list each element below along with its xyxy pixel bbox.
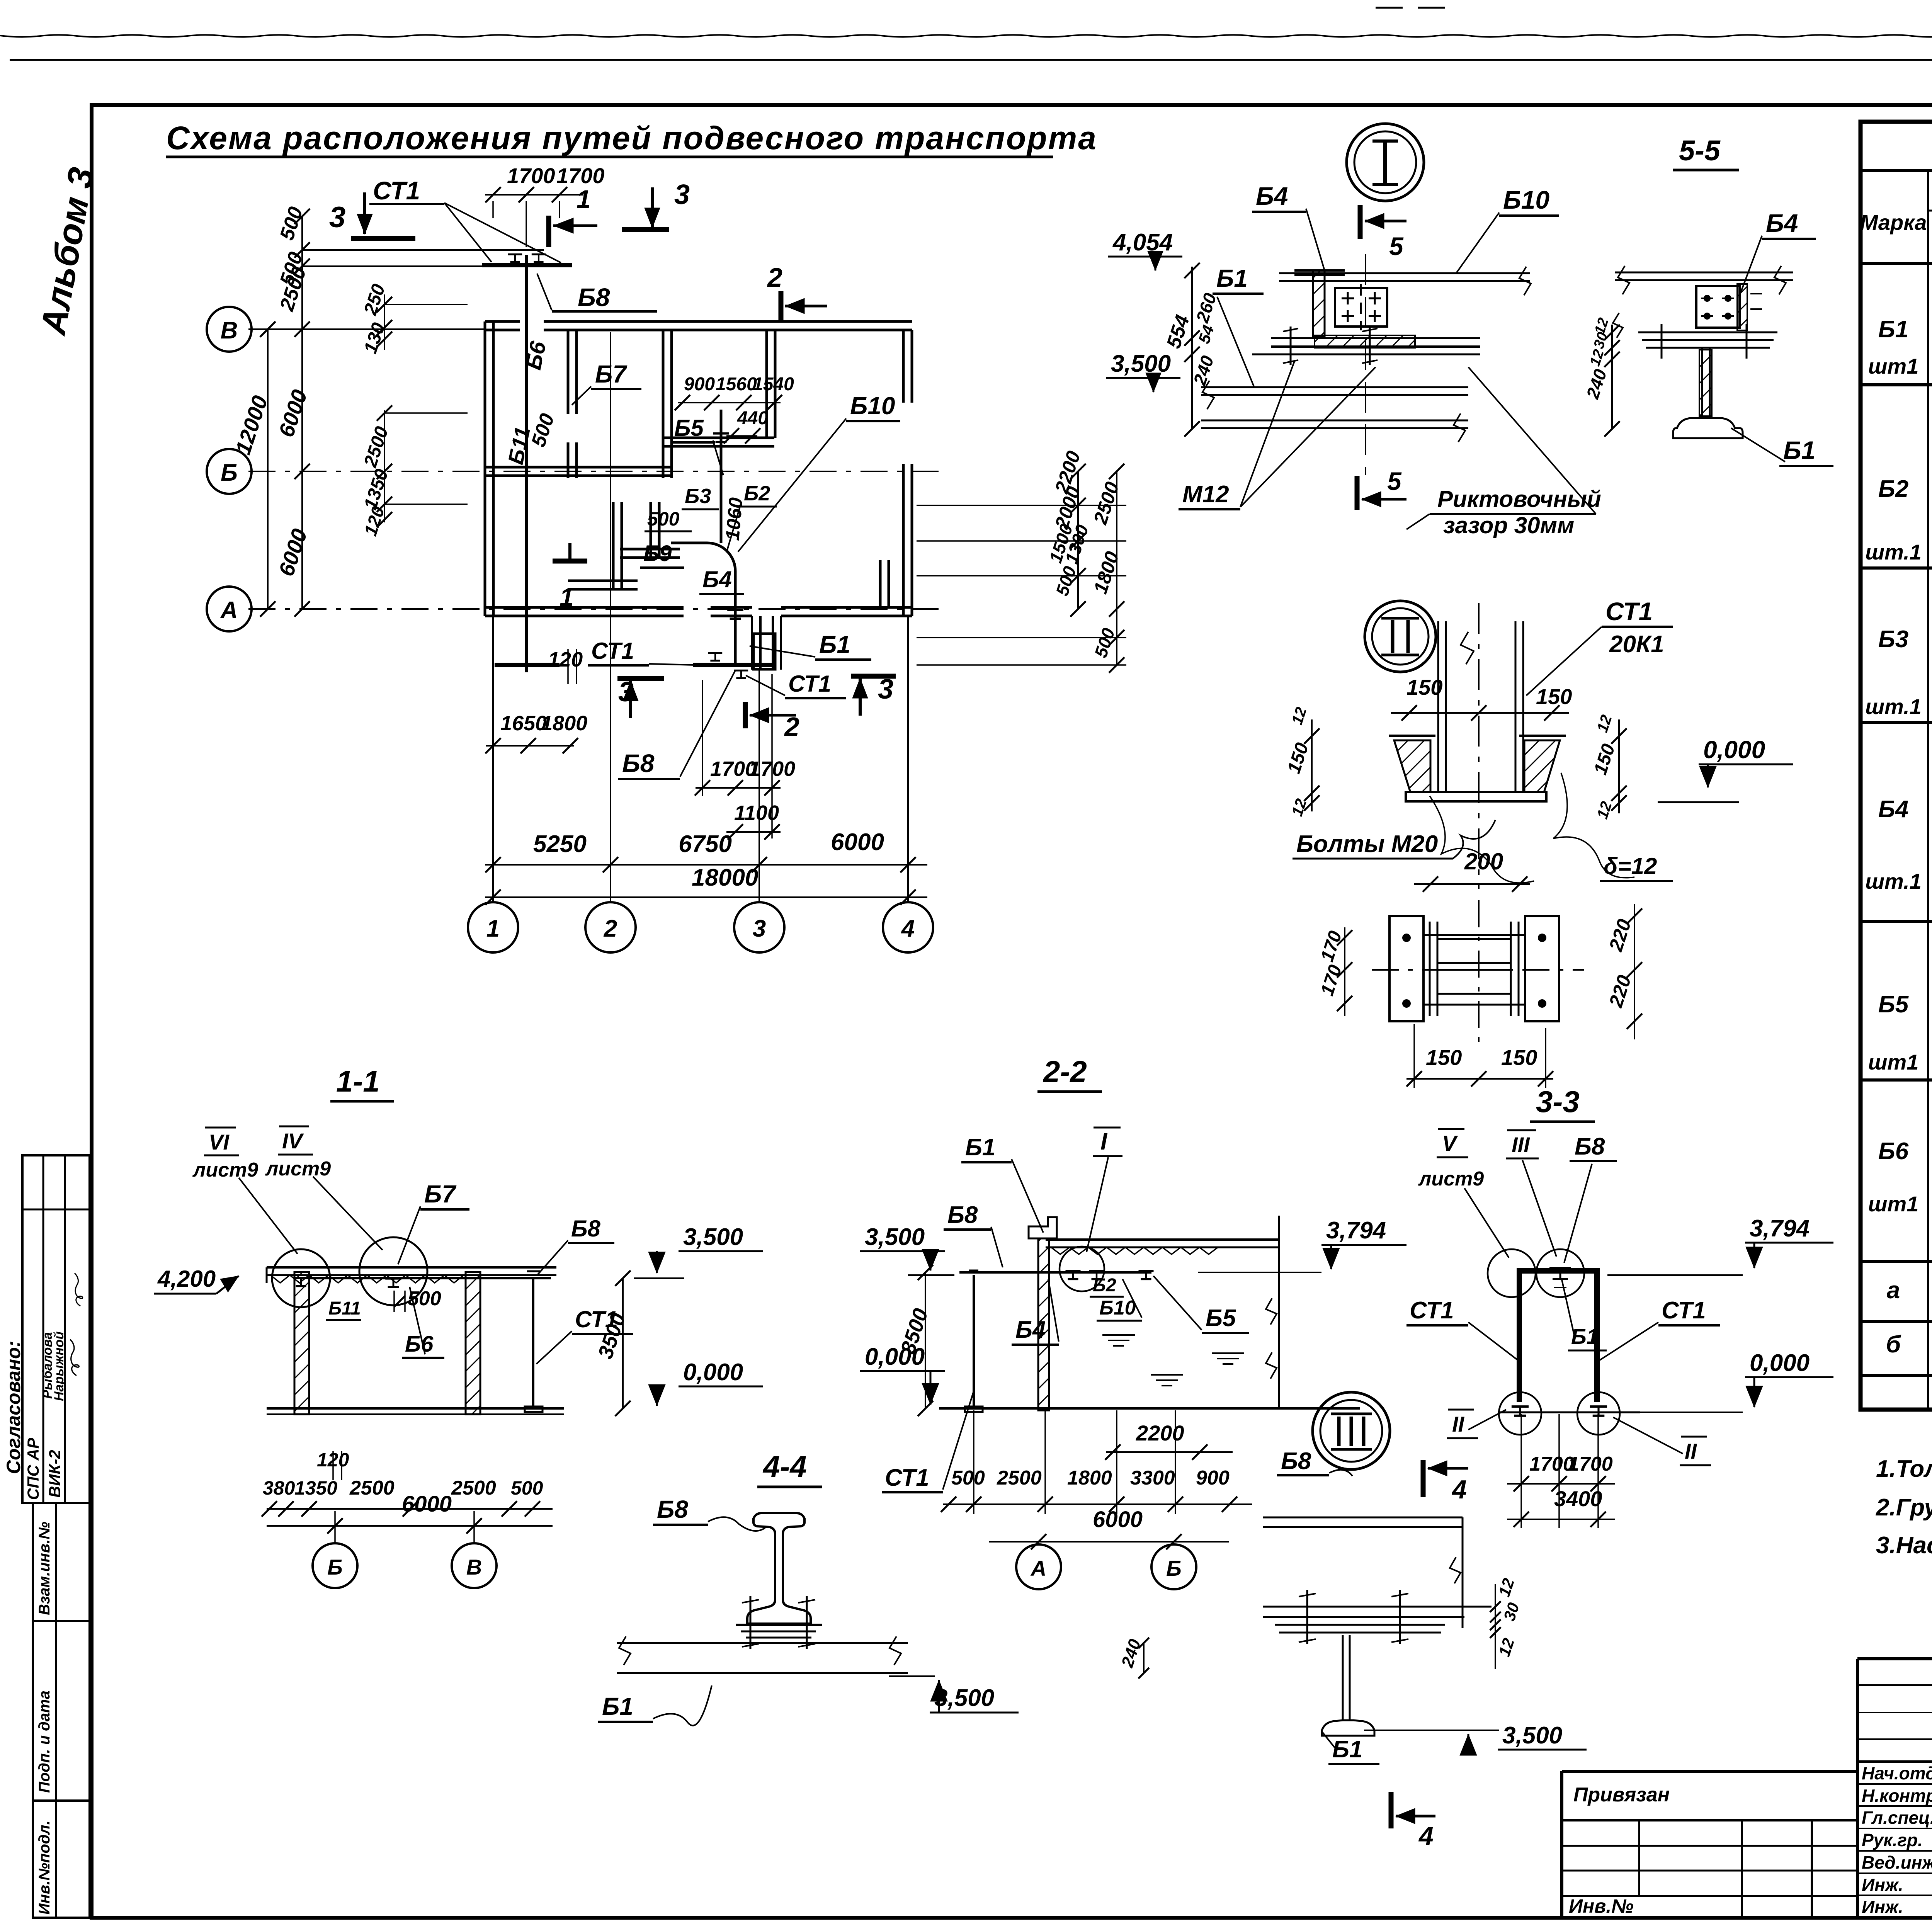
left wall [484,321,486,616]
svg-text:1-1: 1-1 [336,1064,380,1098]
svg-text:ВИК-2: ВИК-2 [46,1450,64,1498]
svg-text:2-2: 2-2 [1043,1054,1087,1088]
detail II circle [1365,601,1436,672]
1-1 top slab [267,1266,556,1269]
svg-text:1700: 1700 [1568,1453,1613,1475]
top sheet line [10,59,1932,61]
svg-text:СПС АР: СПС АР [24,1437,42,1500]
int wall H4 [568,580,638,582]
title block grid [1856,1659,1859,1918]
4-4 rail I-beam [747,1513,811,1624]
svg-text:зазор 30мм: зазор 30мм [1443,512,1574,538]
svg-text:СТ1: СТ1 [788,671,831,697]
5-5 left dims [1611,325,1613,429]
2-2 monorail line [959,1271,1151,1274]
svg-text:4-4: 4-4 [762,1449,807,1483]
svg-text:шт1: шт1 [1868,1050,1919,1074]
svg-text:18000: 18000 [692,864,758,891]
axis А circle [207,587,252,631]
svg-text:2: 2 [604,915,617,942]
svg-text:2500: 2500 [997,1467,1042,1489]
svg-text:1700: 1700 [1529,1453,1574,1475]
detail II left dims [1311,719,1313,811]
5-5 I-beam section [1702,348,1710,415]
curved monorail Б2 arc [707,543,735,571]
table header grid [1861,262,1932,265]
svg-text:Б10: Б10 [850,392,895,420]
2-2 hanger rod [973,1275,975,1406]
axis 1 circle [468,902,518,952]
5-5 rail plates [1638,332,1777,333]
1-1 dim 3500 [622,1278,624,1408]
section flag 1 (plan mid) [553,559,587,564]
svg-text:3: 3 [674,179,690,210]
svg-text:шт.1: шт.1 [1865,540,1922,564]
svg-text:1650: 1650 [500,712,547,735]
svg-text:1350: 1350 [294,1477,337,1499]
svg-text:Б: Б [221,459,238,486]
svg-text:5250: 5250 [533,831,587,857]
int wall V4 [612,502,615,588]
svg-text:3.Настоящий чертеж см.совм: 3.Настоящий чертеж см.совместно с листом… [1876,1532,1932,1559]
svg-text:δ=12: δ=12 [1604,853,1657,879]
svg-text:Б10: Б10 [1099,1297,1136,1319]
5-5 bolt plate [1696,286,1740,328]
svg-text:3-3: 3-3 [1536,1085,1580,1119]
detail II right dims [1618,719,1620,813]
svg-text:Подп. и дата: Подп. и дата [36,1690,53,1793]
svg-text:1: 1 [560,583,574,611]
svg-text:0,000: 0,000 [683,1359,743,1386]
svg-text:шт.1: шт.1 [1865,694,1922,719]
plan left dim chains [267,329,269,609]
top wall seg2 [544,320,912,323]
1-1 floor line [267,1407,564,1410]
svg-text:2.Грузоподъемность монорельса: 2.Грузоподъемность монорельса м/о 1-2 - … [1876,1494,1932,1521]
svg-text:II: II [1452,1412,1465,1436]
svg-text:IV: IV [282,1129,304,1153]
plan small chains 250/130 [384,294,385,350]
svg-text:Б4: Б4 [1878,796,1908,823]
svg-text:Б3: Б3 [685,485,711,508]
svg-text:3,500: 3,500 [1502,1722,1562,1749]
2-2 axis circles [1016,1544,1061,1589]
svg-text:Б4: Б4 [1766,209,1798,237]
svg-text:Б7: Б7 [424,1180,457,1208]
2-2 dim 3500 [925,1272,926,1408]
svg-text:Б8: Б8 [657,1495,688,1523]
table Ведомость элементов outer [1861,122,1932,1410]
svg-text:II: II [1685,1439,1697,1463]
svg-text:Б5: Б5 [1206,1305,1236,1332]
beam Б1 end block [753,634,775,669]
int wall H1 [663,437,774,439]
svg-text:500: 500 [951,1467,985,1489]
svg-text:1700: 1700 [507,163,555,188]
svg-text:В: В [221,317,238,344]
int wall V1b [567,442,570,478]
detail III I-beam below [1342,1635,1344,1720]
dim 240 near 4-4 [1143,1643,1145,1673]
svg-text:V: V [1442,1131,1458,1155]
svg-text:В: В [466,1555,482,1579]
svg-text:Б7: Б7 [595,360,628,388]
axis В circle [207,307,252,352]
torn paper top edge [0,35,1932,37]
beam Б1 detail I [1201,386,1468,388]
rail plates detail I [1271,337,1480,339]
int wall H3 [620,548,680,551]
svg-text:Б1: Б1 [819,631,850,658]
svg-text:Б9: Б9 [643,541,672,566]
2-2 floor [939,1407,1360,1410]
svg-text:Взам.инв.№: Взам.инв.№ [36,1522,53,1615]
svg-text:150: 150 [1501,1045,1537,1070]
svg-text:1700: 1700 [556,163,605,188]
svg-text:380: 380 [263,1477,295,1499]
flag 5 lower [1355,476,1360,510]
2-2 right break line [1278,1216,1280,1408]
svg-text:500: 500 [511,1477,543,1499]
svg-text:III: III [1512,1133,1530,1157]
svg-text:СТ1: СТ1 [1605,597,1653,626]
svg-text:Б8: Б8 [947,1202,978,1228]
svg-text:Б3: Б3 [1878,626,1908,653]
1-1 axis circles [313,1543,357,1588]
svg-text:4: 4 [901,915,915,942]
svg-text:4,054: 4,054 [1112,229,1173,256]
detail III right dims 12 30 12 [1495,1584,1496,1669]
joint dims left 170 170 [1344,927,1345,1016]
axis Б circle [207,449,252,494]
svg-text:СТ1: СТ1 [373,176,420,205]
freeform break lines [1430,796,1534,883]
svg-text:шт.1: шт.1 [1865,869,1922,893]
1-1 hanger СТ1 [532,1279,534,1406]
svg-text:Б1: Б1 [1783,436,1815,464]
svg-text:440: 440 [737,408,768,429]
box Подп. и дата [33,1621,90,1801]
svg-text:5-5: 5-5 [1679,134,1721,167]
3-3 U frame [1517,1268,1522,1402]
joint dims right 220 220 [1634,904,1635,1039]
svg-text:Риктовочный: Риктовочный [1437,486,1601,512]
svg-text:500: 500 [647,508,680,530]
svg-text:Схема расположения путей по: Схема расположения путей подвесного тран… [166,120,1097,156]
int wall V5 [650,502,652,556]
svg-text:150: 150 [1406,675,1442,699]
right wall seg1 [902,330,905,403]
svg-text:1.Толщину сварных швов при: 1.Толщину сварных швов принять 8мм кроме… [1876,1456,1932,1482]
detail III bolts [1306,1590,1308,1644]
svg-text:Рук.гр.: Рук.гр. [1862,1830,1923,1850]
svg-text:150: 150 [1536,684,1572,709]
svg-text:1540: 1540 [753,374,794,395]
beam Б4 vertical piece (hatched) [1313,270,1325,337]
svg-text:Болты М20: Болты М20 [1296,831,1438,857]
svg-text:Н.контр.: Н.контр. [1862,1786,1932,1806]
svg-text:2: 2 [767,262,782,293]
svg-text:Б8: Б8 [1281,1448,1311,1475]
svg-text:VI: VI [209,1130,230,1154]
svg-text:Б4: Б4 [1256,182,1288,210]
plan right dim area [917,505,1126,506]
svg-text:Инж.: Инж. [1862,1897,1903,1917]
int wall V2 [662,330,665,478]
left margin signatures [70,1340,79,1376]
svg-text:лист9: лист9 [265,1158,331,1180]
svg-text:шт1: шт1 [1868,1192,1919,1216]
detail III circle [1313,1392,1390,1469]
monorail Б5 run [720,410,723,543]
svg-text:Согласовано:: Согласовано: [3,1341,24,1474]
svg-text:3300: 3300 [1130,1467,1175,1489]
svg-text:200: 200 [1464,849,1503,874]
svg-text:6750: 6750 [679,831,732,857]
svg-text:Гл.спец.: Гл.спец. [1862,1808,1932,1828]
axis 4 circle [883,902,933,952]
svg-text:3,794: 3,794 [1326,1217,1386,1244]
3-3 top circles [1488,1249,1536,1297]
svg-text:0,000: 0,000 [865,1344,925,1370]
svg-text:Инв.№: Инв.№ [1569,1895,1634,1917]
svg-text:Б1: Б1 [1878,316,1908,343]
2-2 corbel and wall [1029,1217,1057,1238]
svg-text:1060: 1060 [721,497,747,541]
svg-text:Б6: Б6 [1878,1138,1909,1165]
svg-text:150: 150 [1426,1045,1462,1070]
2-2 water marks [1102,1334,1135,1336]
beam Б10 detail I [1279,272,1530,274]
svg-text:Б5: Б5 [1878,991,1909,1018]
svg-text:Б4: Б4 [702,566,732,592]
svg-text:1800: 1800 [541,712,587,735]
box Взам.инв.№ [33,1503,90,1621]
svg-text:3,500: 3,500 [865,1224,925,1250]
bottom wall seg1 [485,606,684,609]
svg-text:3: 3 [753,915,766,942]
lower joint detail plates [1389,916,1423,1021]
int wall V6 [879,560,882,607]
svg-text:Б1: Б1 [1216,264,1248,292]
detail circles VI IV in 1-1 [272,1249,330,1307]
svg-text:лист9: лист9 [1418,1168,1484,1190]
plan top dim lines 500 [302,249,544,251]
svg-text:4: 4 [1451,1475,1467,1504]
1-1 beam Б6 line [309,1277,551,1279]
bottom wall seg2 [711,606,752,609]
table block boundaries [1861,383,1932,386]
svg-text:5: 5 [1387,467,1402,495]
svg-text:Б8: Б8 [622,749,655,777]
svg-text:I: I [1100,1128,1108,1155]
bolt plate detail I [1335,288,1387,327]
base plate [1406,792,1546,801]
svg-text:СТ1: СТ1 [1662,1297,1706,1324]
svg-text:Б: Б [327,1555,343,1579]
svg-text:Марка: Марка [1860,210,1927,235]
3-3 feet [1498,1412,1640,1413]
svg-text:0,000: 0,000 [1750,1350,1810,1376]
monorail Б8 lower run to Б1 [693,663,774,667]
svg-text:1800: 1800 [1067,1467,1112,1489]
monorail horizontal run Б4 [671,542,707,544]
svg-text:3,500: 3,500 [1111,350,1171,377]
1-1 walls hatched [294,1272,309,1414]
svg-text:М12: М12 [1182,481,1229,508]
svg-text:Б5: Б5 [674,415,704,441]
2-2 slab [1046,1238,1279,1241]
int wall V3 [765,330,768,438]
rail section marks [508,254,522,262]
axis 2 circle [585,902,636,952]
svg-text:Б2: Б2 [1093,1275,1116,1296]
svg-text:шт1: шт1 [1868,354,1919,378]
svg-text:6000: 6000 [831,829,884,855]
svg-text:Инв.№подл.: Инв.№подл. [36,1820,53,1915]
svg-text:1100: 1100 [734,801,779,825]
svg-text:Б1: Б1 [965,1134,995,1161]
svg-text:Б2: Б2 [744,482,770,505]
svg-text:Б2: Б2 [1878,476,1908,502]
svg-text:2500: 2500 [451,1477,496,1499]
column СТ1 20К1 [1437,621,1439,792]
svg-text:б: б [1886,1331,1901,1358]
svg-text:6000: 6000 [1093,1507,1143,1532]
svg-text:Нарыжной: Нарыжной [52,1331,66,1401]
svg-text:900: 900 [1196,1467,1230,1489]
svg-text:Вед.инж: Вед.инж [1862,1852,1932,1872]
int wall V1a [567,330,570,414]
svg-text:Б6: Б6 [405,1332,434,1357]
svg-text:Б1: Б1 [602,1692,633,1720]
svg-text:Б4: Б4 [1015,1316,1046,1343]
detail III flag 4 top [1421,1460,1426,1497]
svg-text:1: 1 [486,915,500,942]
detail I circle [1347,124,1424,201]
5-5 rail bolts [1661,324,1663,359]
int wall H2 [485,466,671,469]
svg-text:А: А [1030,1556,1046,1580]
svg-text:6000: 6000 [402,1492,452,1517]
svg-text:5: 5 [1389,232,1404,260]
detail III rail plates [1263,1606,1492,1608]
rail bolts detail I [1290,327,1292,365]
svg-text:4,200: 4,200 [157,1266,216,1292]
svg-text:СТ1: СТ1 [591,638,634,664]
detail III flag 4 bottom [1389,1792,1394,1828]
4-4 beam Б1 [617,1642,908,1644]
right wall seg2 [902,464,905,616]
monorail Б8 vertical run [525,255,528,672]
plan small chains 2500/1350/120 [384,410,385,522]
svg-text:Б8: Б8 [571,1216,600,1242]
left part of title block [1560,1771,1563,1918]
svg-text:Б11: Б11 [328,1298,361,1319]
svg-text:2500: 2500 [349,1477,395,1499]
svg-text:20К1: 20К1 [1609,631,1664,658]
svg-text:3,794: 3,794 [1750,1215,1810,1242]
svg-text:лист9: лист9 [192,1159,258,1181]
svg-text:1: 1 [577,185,591,213]
4-4 bolts [750,1596,752,1649]
svg-text:Привязан: Привязан [1573,1784,1670,1806]
svg-text:СТ1: СТ1 [1410,1297,1454,1324]
svg-text:3400: 3400 [1554,1486,1602,1511]
left margin signature box [22,1155,90,1503]
svg-text:Инж.: Инж. [1862,1875,1903,1895]
svg-text:Б: Б [1166,1556,1182,1580]
svg-text:Б8: Б8 [1575,1133,1605,1160]
svg-text:А: А [220,597,238,624]
top wall seg1 [485,320,520,323]
svg-text:СТ1: СТ1 [885,1464,929,1491]
svg-text:Б8: Б8 [578,283,610,311]
bottom wall seg3 [781,606,912,609]
svg-text:Б10: Б10 [1503,185,1549,214]
svg-text:2200: 2200 [1136,1421,1184,1445]
detail III beam Б8 [1263,1517,1463,1519]
box Инв.№подл. [33,1801,90,1918]
svg-text:0,000: 0,000 [1703,736,1765,764]
axis 3 circle [734,902,784,952]
svg-text:3: 3 [329,201,345,234]
svg-text:3,500: 3,500 [683,1224,743,1250]
base gussets [1394,740,1430,792]
svg-text:900: 900 [684,374,715,395]
svg-text:4: 4 [1418,1821,1434,1851]
svg-text:а: а [1887,1277,1900,1304]
5-5 beam [1615,272,1793,274]
svg-text:Нач.отд: Нач.отд [1862,1763,1932,1783]
flag 5 upper [1358,205,1363,239]
svg-text:1560: 1560 [716,374,757,395]
monorail shaft protrusion walls [751,616,753,670]
4-4 plates [736,1624,822,1626]
svg-text:120: 120 [548,648,583,671]
